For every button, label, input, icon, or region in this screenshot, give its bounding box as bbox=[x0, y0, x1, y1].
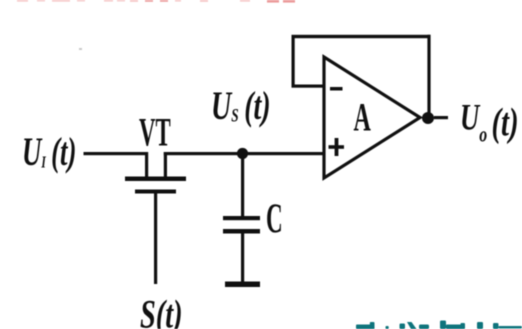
wire: feedback lower segment into minus input bbox=[292, 85, 325, 88]
op-amp minus input marker bbox=[330, 87, 343, 91]
wire: node down to capacitor bbox=[241, 153, 244, 217]
svg-text:A: A bbox=[354, 96, 371, 140]
wire: capacitor to ground bbox=[241, 233, 244, 282]
wire: feedback top horizontal bbox=[292, 35, 431, 38]
caption (teal, cropped at bottom): tops of Chinese characters bbox=[356, 321, 522, 329]
wire: output stub bbox=[434, 116, 448, 119]
capacitor C plates bbox=[223, 216, 260, 234]
node output junction dot bbox=[422, 112, 434, 124]
op-amp A triangle bbox=[324, 57, 420, 178]
cropped red heading remnants (top edge) bbox=[17, 0, 295, 3]
svg-text:VT: VT bbox=[139, 111, 171, 155]
node US junction dot bbox=[237, 148, 248, 159]
wire: transistor to op-amp plus input bbox=[164, 152, 325, 155]
wire: feedback right vertical down to output node bbox=[427, 35, 430, 115]
ground bar bbox=[225, 282, 260, 288]
wire: feedback left vertical bbox=[292, 35, 295, 87]
stray scan speck bbox=[79, 48, 82, 50]
transistor VT (MOS analog switch) bbox=[125, 152, 186, 194]
svg-text:C: C bbox=[266, 197, 283, 243]
wire: gate lead down to S(t) bbox=[154, 194, 157, 285]
op-amp plus input marker bbox=[329, 138, 345, 156]
svg-text:S(t): S(t) bbox=[140, 292, 183, 329]
wire: input from UI(t) to transistor bbox=[84, 152, 149, 155]
